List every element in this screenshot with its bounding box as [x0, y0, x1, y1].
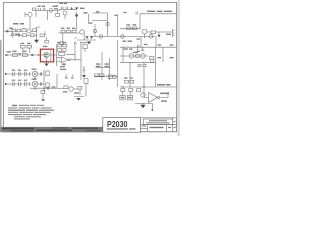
wire [49, 45, 56, 66]
resistor R12 [27, 45, 32, 48]
title block right [141, 118, 177, 132]
wire [63, 33, 96, 46]
capacitor C15 [83, 66, 85, 74]
wire [120, 46, 177, 48]
resistor R28 [125, 80, 129, 83]
wire top bus [36, 10, 61, 12]
resistor R26 [136, 55, 140, 58]
wire bus [59, 32, 81, 34]
label row [147, 11, 172, 12]
resistor R35 [72, 30, 76, 33]
box K1 [120, 96, 125, 100]
label above red box [43, 46, 47, 47]
resistor R30 [121, 89, 125, 92]
label [7, 51, 27, 53]
input arrow [6, 54, 9, 56]
ground [82, 75, 86, 78]
labels matrix [96, 63, 109, 67]
wire [155, 37, 157, 48]
node [43, 88, 44, 89]
capacitor C16 [138, 45, 140, 50]
junction cross [29, 72, 31, 76]
transistor Q6 highlighted [44, 52, 49, 57]
labels [57, 42, 66, 43]
diode D10 [143, 65, 146, 67]
resistor R17 [57, 44, 61, 47]
resistor R19 [58, 49, 62, 52]
wire second row [10, 34, 37, 36]
resistor R23 [100, 74, 104, 77]
wire to connector [162, 31, 173, 33]
resistor R20 [59, 53, 65, 56]
labels [12, 69, 37, 71]
wire [5, 73, 32, 75]
labels [61, 28, 75, 29]
wire [155, 32, 162, 35]
right scan edge [177, 0, 180, 136]
diode D6 [32, 54, 35, 57]
diode D5 [158, 35, 161, 38]
label R-values top row [38, 6, 59, 7]
wire feedback [66, 45, 75, 60]
resistor R7 [40, 34, 44, 37]
transistor Q4 [63, 11, 67, 15]
wire [59, 8, 76, 10]
box X2 [83, 44, 87, 48]
wire [38, 70, 44, 92]
capacitor C8 [19, 72, 21, 77]
capacitor C7 [13, 72, 15, 77]
ground [87, 42, 91, 45]
resistor R25 [78, 86, 82, 89]
diode D9 [138, 65, 141, 67]
connector bracket [173, 29, 175, 37]
wire stub [44, 31, 46, 36]
resistor R27 [150, 57, 154, 60]
transistor Q12 [141, 54, 145, 58]
capacitor C20 [47, 87, 48, 90]
labels right grid [137, 34, 174, 59]
resistor R18 [63, 44, 67, 47]
transistor Q10 [69, 87, 73, 91]
label [84, 12, 93, 23]
label [80, 8, 85, 9]
resistor R10 [151, 31, 155, 34]
wire top right bus [140, 14, 177, 28]
ground [44, 64, 48, 67]
wire rail bus [92, 13, 118, 37]
title block model box [103, 118, 141, 133]
resistor R37 [33, 8, 36, 11]
transistor Q1 [49, 8, 53, 12]
wire input left [4, 30, 37, 32]
diode D1 [7, 30, 10, 33]
box X3 [84, 78, 88, 83]
capacitor C2 [43, 8, 45, 11]
transistor Q2 [28, 12, 32, 16]
ground [76, 98, 80, 101]
labels [124, 48, 133, 49]
capacitor C9 [25, 72, 27, 77]
connector P2 [106, 22, 109, 25]
resistor R34 [67, 30, 71, 33]
resistor R22 [95, 74, 99, 77]
connector J1 [99, 35, 102, 38]
transistor Q11 [129, 54, 133, 58]
box K2 [127, 96, 132, 100]
node dots on bus [122, 86, 123, 87]
capacitor C10 [40, 72, 41, 75]
label [60, 3, 68, 4]
red highlight box [40, 49, 53, 62]
wire [73, 89, 84, 97]
capacitor C5 [66, 7, 68, 10]
label mid [18, 53, 21, 54]
connector J2 [121, 35, 124, 38]
connector P1 [93, 29, 96, 32]
transistor Q14 [141, 93, 145, 97]
resistor R13 [13, 54, 18, 57]
wire [37, 27, 41, 40]
border frame [3, 2, 176, 131]
labels [133, 52, 138, 53]
resistor R8 [127, 27, 131, 30]
diode D7 [86, 36, 89, 39]
wire [145, 32, 152, 38]
diode D3 [75, 7, 78, 10]
op-amp U2 [149, 93, 158, 103]
wire [120, 47, 148, 62]
resistor R15 [46, 71, 49, 76]
wire stubs [23, 48, 30, 53]
resistor R36 [60, 42, 64, 45]
wire mid bus [90, 36, 156, 38]
resistor R24 [64, 86, 68, 89]
label [123, 41, 133, 42]
rail wire [80, 40, 118, 87]
wire row B out [30, 87, 57, 89]
resistor R39 [45, 40, 49, 43]
wire [135, 87, 152, 110]
transistor Q15 [80, 30, 84, 34]
capacitor C19 [11, 31, 14, 37]
junction cross [29, 82, 31, 86]
ground [34, 40, 39, 43]
diode D4 [75, 15, 79, 18]
capacitor C18 [74, 38, 77, 45]
resistor R11 [21, 45, 26, 48]
resistor R32 [137, 89, 141, 92]
node [151, 109, 153, 111]
wire [77, 12, 89, 30]
resistor R14 [23, 54, 28, 57]
wire [94, 68, 118, 77]
transistor Q8 [32, 81, 38, 87]
transistor Q13 [150, 59, 154, 63]
diode D8 [90, 36, 93, 39]
wire input [6, 54, 44, 56]
input arrow B [5, 83, 8, 85]
capacitor C6 [136, 12, 138, 15]
connector J3 [149, 34, 153, 38]
wire bottom bus [120, 86, 177, 88]
resistor R38 [33, 29, 36, 32]
wire [120, 37, 163, 88]
resistor R16 [46, 83, 49, 88]
label [127, 24, 137, 25]
capacitor C17 [141, 47, 143, 51]
svg-text:P2030: P2030 [107, 119, 128, 129]
resistor R41 [31, 34, 34, 37]
label [52, 86, 56, 87]
labels below op-amp [60, 64, 66, 70]
ground B [34, 87, 37, 90]
op-amp U1 [62, 57, 69, 63]
wire output [160, 92, 168, 98]
wire [57, 58, 82, 62]
transistor Q9 [108, 75, 113, 78]
capacitor C13 [25, 82, 27, 87]
capacitor C21 [65, 75, 68, 79]
label [21, 43, 31, 44]
label [9, 23, 24, 35]
transistor Q5 [142, 29, 147, 34]
capacitor C22 [71, 75, 74, 79]
notes text block [8, 105, 54, 120]
resistor R4 [12, 29, 16, 32]
wire [123, 91, 131, 95]
capacitor C4 [62, 7, 64, 10]
labels [12, 79, 37, 81]
resistor R31 [129, 89, 133, 92]
resistor R19b [63, 49, 66, 52]
ground A [34, 77, 37, 80]
wire [120, 27, 141, 29]
node [38, 54, 39, 55]
wire [63, 63, 65, 66]
capacitor C11 [13, 82, 15, 87]
wire rail [57, 74, 64, 89]
wire [36, 11, 58, 21]
capacitor C1 [39, 8, 41, 11]
wire [38, 83, 44, 85]
input arrow A [5, 73, 8, 75]
capacitor C12 [19, 82, 21, 87]
diode D2 [71, 7, 73, 10]
label [124, 12, 127, 13]
capacitor C3 [19, 34, 20, 37]
dark scan band bottom [1, 127, 104, 132]
resistor R9 [133, 27, 137, 30]
labels [124, 77, 171, 85]
transistor Q7 [32, 71, 38, 77]
label [96, 11, 118, 16]
resistor R6 [22, 29, 26, 32]
labels [160, 93, 169, 102]
resistor R3 [56, 14, 60, 17]
resistor R33 [61, 30, 65, 33]
capacitor C14 [40, 82, 41, 85]
labels [63, 91, 79, 94]
wire [5, 83, 32, 85]
component X1 below [41, 90, 45, 93]
resistor R5 [17, 29, 21, 32]
ground [140, 105, 145, 108]
resistor R40 [23, 34, 27, 37]
transistor Q3 [27, 29, 31, 33]
left scan edge [0, 40, 1, 132]
wire [85, 83, 87, 96]
label [54, 8, 58, 9]
resistor R29 [130, 80, 134, 83]
